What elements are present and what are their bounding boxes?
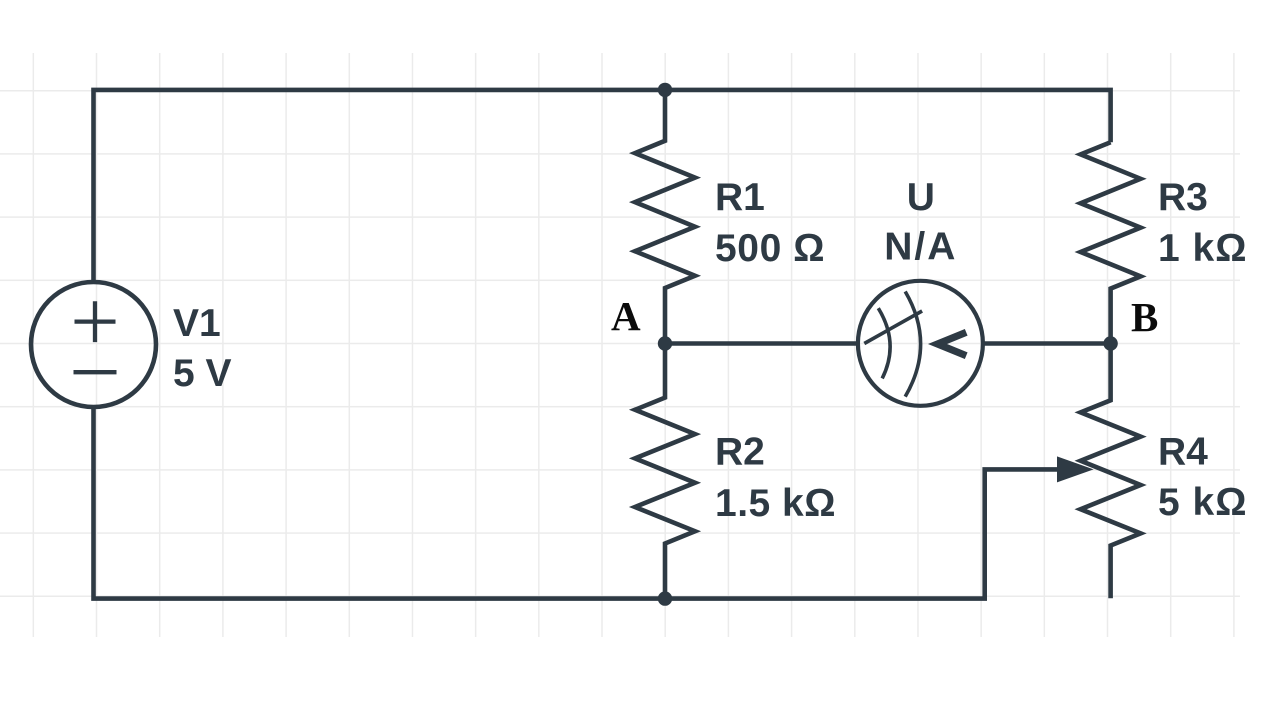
svg-text:R2: R2	[715, 431, 765, 474]
svg-text:500 Ω: 500 Ω	[715, 227, 825, 270]
junction dot node A	[658, 336, 672, 350]
R4 wiper arrowhead	[1057, 456, 1094, 482]
svg-text:5 V: 5 V	[173, 352, 232, 395]
voltmeter < mark	[938, 332, 967, 355]
wire bottom rail from V1 bottom, to wiper riser and wiper arm of R4	[94, 407, 1063, 599]
svg-text:V1: V1	[173, 302, 221, 345]
svg-text:N/A: N/A	[884, 226, 957, 269]
wire node A to voltmeter	[665, 341, 859, 346]
junction dot node B	[1103, 336, 1117, 350]
V1 plus sign	[75, 301, 116, 342]
svg-text:U: U	[907, 176, 935, 219]
voltmeter inner left arc	[878, 308, 890, 378]
junction dot top node	[658, 83, 672, 97]
svg-text:A: A	[611, 293, 641, 339]
svg-text:R3: R3	[1158, 176, 1208, 219]
voltmeter needle	[864, 311, 922, 344]
resistor R3	[1081, 142, 1141, 343]
resistor R1	[635, 90, 695, 344]
resistor R4 (rheostat)	[1081, 344, 1141, 599]
wire voltmeter to node B	[983, 341, 1111, 346]
resistor R2	[635, 344, 695, 599]
svg-text:5 kΩ: 5 kΩ	[1158, 481, 1247, 524]
svg-text:B: B	[1131, 294, 1158, 340]
background grid	[0, 53, 1240, 637]
voltage source V1 circle	[31, 282, 156, 407]
junction dot bottom node	[658, 591, 672, 605]
wire top rail with left branch down to V1 and right lead to R3	[94, 90, 1111, 283]
voltmeter U circle	[858, 281, 983, 406]
voltmeter inner right arc	[905, 292, 920, 397]
svg-text:1 kΩ: 1 kΩ	[1158, 227, 1247, 270]
V1 minus sign	[74, 370, 117, 374]
svg-text:R1: R1	[715, 176, 765, 219]
svg-text:1.5 kΩ: 1.5 kΩ	[715, 482, 836, 525]
svg-text:R4: R4	[1158, 431, 1208, 474]
